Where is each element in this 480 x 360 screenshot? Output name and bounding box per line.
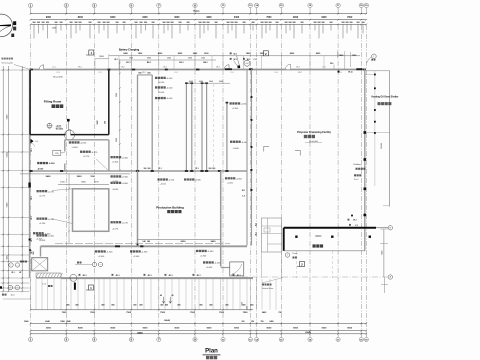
svg-text:300: 300 xyxy=(144,168,147,170)
bottom base line xyxy=(31,333,367,335)
svg-text:W-1: W-1 xyxy=(11,272,14,274)
canopy bottom tick xyxy=(383,205,390,207)
hall right jog xyxy=(221,267,230,269)
left bottom leader circles xyxy=(8,285,13,290)
svg-text:7500: 7500 xyxy=(90,312,96,314)
north arrow xyxy=(0,14,13,37)
mid wall columns xyxy=(251,96,253,98)
svg-text:450: 450 xyxy=(165,303,168,306)
left dimension line a xyxy=(2,66,4,291)
svg-text:-4.040: -4.040 xyxy=(195,180,202,182)
svg-text:-0.360: -0.360 xyxy=(141,252,148,254)
svg-text:C-2: C-2 xyxy=(253,59,256,61)
door leaf left wall xyxy=(28,183,30,188)
svg-text:C-4: C-4 xyxy=(274,72,277,74)
tag cluster grid13 xyxy=(230,52,232,54)
battery dim line 2 xyxy=(120,59,216,61)
filling room bottom wall xyxy=(30,134,65,136)
svg-text:Pump: Pump xyxy=(293,253,298,255)
pump rooms lower xyxy=(261,252,263,278)
hall left wall xyxy=(137,171,139,247)
svg-text:3000: 3000 xyxy=(147,58,151,60)
grid bubble 1 top xyxy=(28,3,32,7)
filling right vdim xyxy=(119,59,121,170)
svg-text:7500: 7500 xyxy=(62,312,68,314)
gutter note bottom xyxy=(262,284,264,286)
hall level labels bottom 3 xyxy=(203,261,205,263)
svg-text:9000: 9000 xyxy=(266,328,272,330)
svg-text:W-1: W-1 xyxy=(256,232,258,235)
pump rooms inner xyxy=(267,218,269,252)
svg-text:7500: 7500 xyxy=(160,312,166,314)
outer wall bottom xyxy=(61,277,253,279)
equipment note xyxy=(20,261,22,263)
room A boxed 750 xyxy=(53,150,61,155)
svg-text:450: 450 xyxy=(75,303,78,306)
svg-text:9000: 9000 xyxy=(206,17,212,19)
svg-text:1: 1 xyxy=(49,124,50,126)
svg-text:3000: 3000 xyxy=(116,138,118,142)
svg-text:45: 45 xyxy=(160,294,162,297)
svg-text:9000: 9000 xyxy=(293,17,299,19)
room B left labels 2 xyxy=(37,218,39,220)
svg-text:9000: 9000 xyxy=(207,328,213,330)
svg-text:-0.360: -0.360 xyxy=(207,251,214,253)
svg-text:-0.360: -0.360 xyxy=(200,255,207,257)
svg-text:D-1: D-1 xyxy=(36,141,39,143)
svg-text:9000: 9000 xyxy=(181,241,187,243)
grid bubble 15 top xyxy=(279,3,283,7)
svg-text:W-1: W-1 xyxy=(31,196,33,199)
svg-text:140: 140 xyxy=(142,240,145,243)
canopy mid tie xyxy=(365,132,390,134)
svg-text:450: 450 xyxy=(160,303,163,306)
hall below-wall level labels xyxy=(158,178,160,180)
room A right labels 2 xyxy=(111,175,113,177)
svg-text:4000: 4000 xyxy=(199,81,203,83)
room B left labels 3 xyxy=(37,234,39,236)
outer wall top dark ticks xyxy=(30,69,34,71)
svg-text:75000: 75000 xyxy=(193,10,200,13)
svg-text:-4.275: -4.275 xyxy=(112,229,119,231)
grid bubble 2 bottom xyxy=(65,334,67,338)
room A right wall xyxy=(108,140,110,172)
svg-text:-0.300: -0.300 xyxy=(122,177,129,179)
svg-text:39465: 39465 xyxy=(381,142,383,149)
bottom right vdim xyxy=(384,277,386,293)
svg-text:-4.060: -4.060 xyxy=(122,183,129,185)
grid bubble 5 top xyxy=(129,3,133,7)
svg-text:-0.300: -0.300 xyxy=(122,157,129,159)
svg-text:W-1: W-1 xyxy=(234,59,237,61)
svg-text:-4.000: -4.000 xyxy=(166,98,173,100)
svg-text:7500: 7500 xyxy=(126,312,132,314)
svg-text:7000: 7000 xyxy=(347,17,353,19)
svg-text:-0.275: -0.275 xyxy=(83,156,90,158)
svg-text:9000: 9000 xyxy=(347,328,353,330)
svg-text:+0.0: +0.0 xyxy=(246,63,249,65)
svg-text:-0.000: -0.000 xyxy=(158,92,165,94)
filling room left wall xyxy=(29,70,31,135)
axis line A xyxy=(242,276,388,278)
outer wall left xyxy=(29,69,31,278)
svg-text:45: 45 xyxy=(172,294,174,297)
canopy inner line xyxy=(374,71,376,186)
svg-text:9000: 9000 xyxy=(46,328,52,330)
strip dim row xyxy=(186,82,230,84)
polyester corner mark 2 xyxy=(295,150,300,155)
svg-text:W=1500: W=1500 xyxy=(56,129,63,131)
svg-text:W-2: W-2 xyxy=(142,72,145,74)
left wall door leaf xyxy=(30,139,33,144)
dock circles xyxy=(92,262,96,266)
bottom dim line 7500 xyxy=(31,309,254,311)
square room B walls xyxy=(73,189,109,232)
grid bubble 16 bottom xyxy=(309,334,311,338)
top overall dimension line xyxy=(31,13,367,15)
svg-text:450: 450 xyxy=(100,264,102,266)
svg-text:1800: 1800 xyxy=(129,58,133,60)
svg-text:-4.400: -4.400 xyxy=(44,233,51,235)
door arc top wall 1 xyxy=(39,65,43,69)
grid bubble 15 bottom xyxy=(280,334,282,338)
hall level labels bottom 2b xyxy=(130,250,132,252)
hall mid wall horizontal xyxy=(30,170,247,172)
canopy top edge xyxy=(366,70,389,72)
filling room detail marker xyxy=(47,123,52,128)
bottom extension lines xyxy=(30,279,32,310)
mcc right tags xyxy=(348,219,350,221)
svg-text:34040: 34040 xyxy=(164,319,171,322)
grid bubble 7 top xyxy=(157,3,161,7)
svg-text:5400: 5400 xyxy=(211,240,217,243)
svg-text:BL=0.000: BL=0.000 xyxy=(53,77,63,79)
svg-text:500: 500 xyxy=(33,252,35,255)
svg-text:-0.290: -0.290 xyxy=(48,219,55,221)
svg-text:Vertical gutter: Vertical gutter xyxy=(2,62,14,65)
svg-text:Production Building: Production Building xyxy=(156,206,184,210)
room A right labels xyxy=(111,156,113,158)
svg-text:Plan: Plan xyxy=(205,349,218,355)
room B right labels 1 xyxy=(111,182,113,184)
svg-text:9000: 9000 xyxy=(322,328,328,330)
room B bottom labels xyxy=(33,232,35,234)
svg-text:-0.400: -0.400 xyxy=(214,263,221,265)
svg-text:W-2: W-2 xyxy=(296,67,299,69)
battery dim connectors xyxy=(118,56,120,69)
svg-text:JD-2: JD-2 xyxy=(11,295,15,297)
hall level labels bottom xyxy=(95,250,97,252)
hall level labels stack xyxy=(155,77,157,79)
grid bubble 2 top xyxy=(64,3,68,7)
grid bubble 1 bottom xyxy=(30,334,32,338)
svg-text:9000: 9000 xyxy=(321,17,327,19)
grid bubble 3 top xyxy=(92,3,96,7)
hall bottom wall tick xyxy=(115,245,120,247)
bottom extension lines right xyxy=(261,279,263,310)
svg-text:W-2: W-2 xyxy=(121,67,124,69)
grid bubble 14 bottom xyxy=(256,334,258,338)
hall level labels bottom 2 xyxy=(196,250,198,252)
svg-text:150: 150 xyxy=(251,321,254,323)
grid bubble 17 top xyxy=(336,3,340,7)
svg-text:7500: 7500 xyxy=(243,312,249,314)
room A level labels 2 xyxy=(80,151,82,153)
section box 2 bottom xyxy=(300,262,305,267)
filling room dim 2800 xyxy=(95,58,109,60)
svg-text:1: 1 xyxy=(94,264,95,266)
svg-text:MCC: MCC xyxy=(316,234,322,238)
svg-text:9000: 9000 xyxy=(110,328,116,330)
svg-text:Filling Room: Filling Room xyxy=(44,99,62,103)
grid bubble 11 top xyxy=(221,3,225,7)
svg-text:D-1: D-1 xyxy=(322,67,325,69)
hall mid wall dark ticks xyxy=(29,170,32,172)
svg-text:500: 500 xyxy=(330,63,333,65)
svg-text:450: 450 xyxy=(111,303,114,306)
polyester corner mark 1 xyxy=(264,146,269,151)
svg-text:7500: 7500 xyxy=(219,312,225,314)
svg-text:-4.050: -4.050 xyxy=(166,78,173,80)
svg-text:3600: 3600 xyxy=(77,176,83,178)
svg-text:-0.290: -0.290 xyxy=(39,223,46,225)
slope arrows xyxy=(162,297,164,304)
axis bubble A xyxy=(388,275,392,279)
svg-text:1: 1 xyxy=(287,255,288,257)
grid bubble 13 top xyxy=(248,3,252,7)
grid bubble 16 top xyxy=(308,3,312,7)
grid bubble 9 top xyxy=(193,3,197,7)
svg-text:1500: 1500 xyxy=(97,121,99,125)
grid bubble 18 bottom xyxy=(360,334,362,338)
svg-text:-0.400: -0.400 xyxy=(48,236,55,238)
svg-text:W-1: W-1 xyxy=(31,238,33,241)
svg-text:8400: 8400 xyxy=(110,16,116,19)
canopy columns small xyxy=(374,74,376,76)
mid wall pair xyxy=(246,69,248,245)
svg-text:600: 600 xyxy=(148,73,151,75)
svg-text:4000: 4000 xyxy=(189,81,193,83)
svg-text:1500: 1500 xyxy=(201,58,205,60)
hall bottom wall xyxy=(41,245,248,247)
svg-text:C-1: C-1 xyxy=(355,225,358,227)
svg-text:C-2: C-2 xyxy=(242,196,245,198)
svg-text:5400: 5400 xyxy=(46,175,52,178)
svg-text:8400: 8400 xyxy=(78,16,84,19)
svg-text:-4.060: -4.060 xyxy=(112,189,119,191)
svg-text:-0.050: -0.050 xyxy=(158,82,165,84)
bottom dim line 9000 xyxy=(31,322,367,324)
mcc columns xyxy=(295,236,297,238)
svg-text:C-1: C-1 xyxy=(98,72,101,74)
svg-text:W-1: W-1 xyxy=(242,190,245,192)
top dimension line 2 xyxy=(31,19,367,21)
section box 1 bottom xyxy=(89,285,94,290)
svg-text:Battery Charging: Battery Charging xyxy=(119,48,140,51)
svg-text:C-3: C-3 xyxy=(56,72,59,74)
svg-text:9000: 9000 xyxy=(78,328,84,330)
outer wall right xyxy=(364,69,366,250)
svg-text:W-2: W-2 xyxy=(216,67,219,69)
grid bubble 5 bottom xyxy=(130,334,132,338)
bottom dim ticks xyxy=(30,309,32,311)
pump rooms outline xyxy=(262,218,282,252)
svg-text:-0.360: -0.360 xyxy=(133,256,140,258)
axis bubble B xyxy=(376,227,388,229)
svg-text:Pre-C: Pre-C xyxy=(354,179,359,181)
grid bubble 17 bottom xyxy=(337,334,339,338)
strip faint divider xyxy=(213,84,215,170)
pump circle tag xyxy=(285,253,289,257)
svg-text:9000: 9000 xyxy=(234,328,240,330)
svg-text:-0.050: -0.050 xyxy=(227,182,234,184)
right wall columns xyxy=(364,131,367,134)
grid bubble 19 bottom xyxy=(365,334,367,338)
svg-text:W-1: W-1 xyxy=(31,148,33,151)
grid bubble 7 bottom xyxy=(158,334,160,338)
left tick rows xyxy=(1,69,30,71)
mcc top wall xyxy=(284,227,376,229)
detail bubble top right xyxy=(372,54,377,59)
svg-text:-4.050: -4.050 xyxy=(72,147,79,149)
canopy upper tie xyxy=(365,73,375,75)
svg-text:450: 450 xyxy=(177,303,180,306)
svg-text:450: 450 xyxy=(209,303,212,306)
hall dim row xyxy=(138,239,221,241)
svg-text:7500: 7500 xyxy=(190,312,196,314)
room B right labels 2 xyxy=(111,221,113,223)
svg-text:-4.040: -4.040 xyxy=(233,148,240,150)
svg-text:-0.400: -0.400 xyxy=(206,267,213,269)
svg-text:D-1: D-1 xyxy=(52,67,55,69)
svg-text:600: 600 xyxy=(139,73,142,75)
svg-text:450: 450 xyxy=(17,264,19,266)
svg-text:9000: 9000 xyxy=(174,328,180,330)
svg-text:9000: 9000 xyxy=(143,328,149,330)
svg-text:-0.300: -0.300 xyxy=(112,162,119,164)
filling room door arc xyxy=(66,130,71,135)
left room level labels xyxy=(37,162,39,164)
canopy right edge xyxy=(389,71,391,207)
svg-text:5400: 5400 xyxy=(247,306,249,310)
svg-text:9000: 9000 xyxy=(174,17,180,19)
battery dim line xyxy=(109,55,360,57)
bottom wall door detail xyxy=(70,274,77,281)
left ramp note xyxy=(2,294,4,296)
svg-text:450: 450 xyxy=(101,303,104,306)
room A top wall xyxy=(65,139,109,141)
svg-text:-4.050: -4.050 xyxy=(168,180,175,182)
svg-text:450: 450 xyxy=(139,303,142,306)
svg-text:780: 780 xyxy=(278,312,281,314)
mid dim row 1 xyxy=(20,173,130,175)
svg-text:W-2: W-2 xyxy=(163,67,166,69)
svg-text:Heating Oil Oven Shelter: Heating Oil Oven Shelter xyxy=(372,96,399,99)
svg-text:-4.050: -4.050 xyxy=(236,178,243,180)
room B left labels 1 xyxy=(37,190,39,192)
svg-text:2400: 2400 xyxy=(188,58,192,60)
svg-text:-4.000: -4.000 xyxy=(166,88,173,90)
svg-text:8400: 8400 xyxy=(142,16,148,19)
svg-text:150: 150 xyxy=(105,121,107,124)
hall right wall xyxy=(220,171,222,267)
door arc top wall 2 xyxy=(286,64,291,69)
filling room door detail circle xyxy=(65,130,75,140)
strip wall pair 3 xyxy=(201,83,203,171)
grid bubble 9 bottom xyxy=(194,334,196,338)
svg-text:W-2: W-2 xyxy=(114,59,117,61)
svg-text:300: 300 xyxy=(209,168,212,170)
svg-text:-0.300: -0.300 xyxy=(98,256,105,258)
grid bubble 19 top xyxy=(364,3,368,7)
outer wall bottom thin xyxy=(36,277,61,279)
svg-text:1: 1 xyxy=(373,56,374,58)
svg-text:-0.300: -0.300 xyxy=(232,108,239,110)
ramp hatch xyxy=(36,273,61,277)
top dimension line 3 xyxy=(31,23,367,25)
svg-text:-4.050: -4.050 xyxy=(80,143,87,145)
svg-text:Polyester Drumming Facility: Polyester Drumming Facility xyxy=(297,131,331,134)
svg-text:-4.050: -4.050 xyxy=(48,162,55,165)
bottom overall line xyxy=(31,330,367,332)
svg-text:300: 300 xyxy=(242,321,245,323)
svg-text:9000: 9000 xyxy=(293,328,299,330)
svg-text:W-1: W-1 xyxy=(158,168,161,170)
svg-text:W-1: W-1 xyxy=(256,223,258,226)
svg-text:-4.050: -4.050 xyxy=(37,168,44,171)
strip wall pair 2 xyxy=(185,83,187,171)
svg-text:8400: 8400 xyxy=(234,16,240,19)
grid bubble 14 top xyxy=(254,3,258,7)
left dimension line c xyxy=(21,66,23,291)
room B leader lines xyxy=(52,189,73,191)
svg-text:3000: 3000 xyxy=(116,93,118,97)
svg-text:-4.400: -4.400 xyxy=(36,239,43,241)
wall227 labels 2 xyxy=(230,141,232,143)
room A diagonal leader xyxy=(96,159,108,170)
outer wall top xyxy=(30,69,367,71)
svg-text:780: 780 xyxy=(261,321,264,323)
svg-text:450: 450 xyxy=(199,303,202,306)
grid axis dash-dot verticals xyxy=(30,25,32,334)
svg-text:1:1.5: 1:1.5 xyxy=(42,284,46,286)
svg-text:9000: 9000 xyxy=(46,17,52,19)
mcc bottom line xyxy=(284,250,365,252)
svg-text:300: 300 xyxy=(148,168,151,170)
svg-text:450: 450 xyxy=(133,303,136,306)
left mid leader circles xyxy=(9,263,13,267)
svg-text:-0.275: -0.275 xyxy=(91,152,98,154)
svg-text:C-1: C-1 xyxy=(230,72,233,74)
svg-text:2800: 2800 xyxy=(99,56,105,58)
grid bubble 13 bottom xyxy=(249,334,251,338)
svg-text:-0.275: -0.275 xyxy=(39,196,46,198)
svg-text:Building: Building xyxy=(354,164,361,166)
left gutter note xyxy=(2,58,4,60)
svg-text:2: 2 xyxy=(10,287,11,289)
room B left dim line xyxy=(68,174,70,243)
svg-text:W-1: W-1 xyxy=(31,216,33,219)
section box 2 top xyxy=(263,51,268,56)
svg-text:3000: 3000 xyxy=(219,81,223,83)
svg-text:-0.275: -0.275 xyxy=(48,191,55,193)
svg-text:W-2: W-2 xyxy=(78,67,81,69)
filling room right wall xyxy=(108,70,110,135)
svg-text:2400: 2400 xyxy=(269,320,273,323)
room A level labels xyxy=(69,141,71,143)
svg-text:140: 140 xyxy=(147,240,150,243)
section box 1 top xyxy=(89,50,94,55)
